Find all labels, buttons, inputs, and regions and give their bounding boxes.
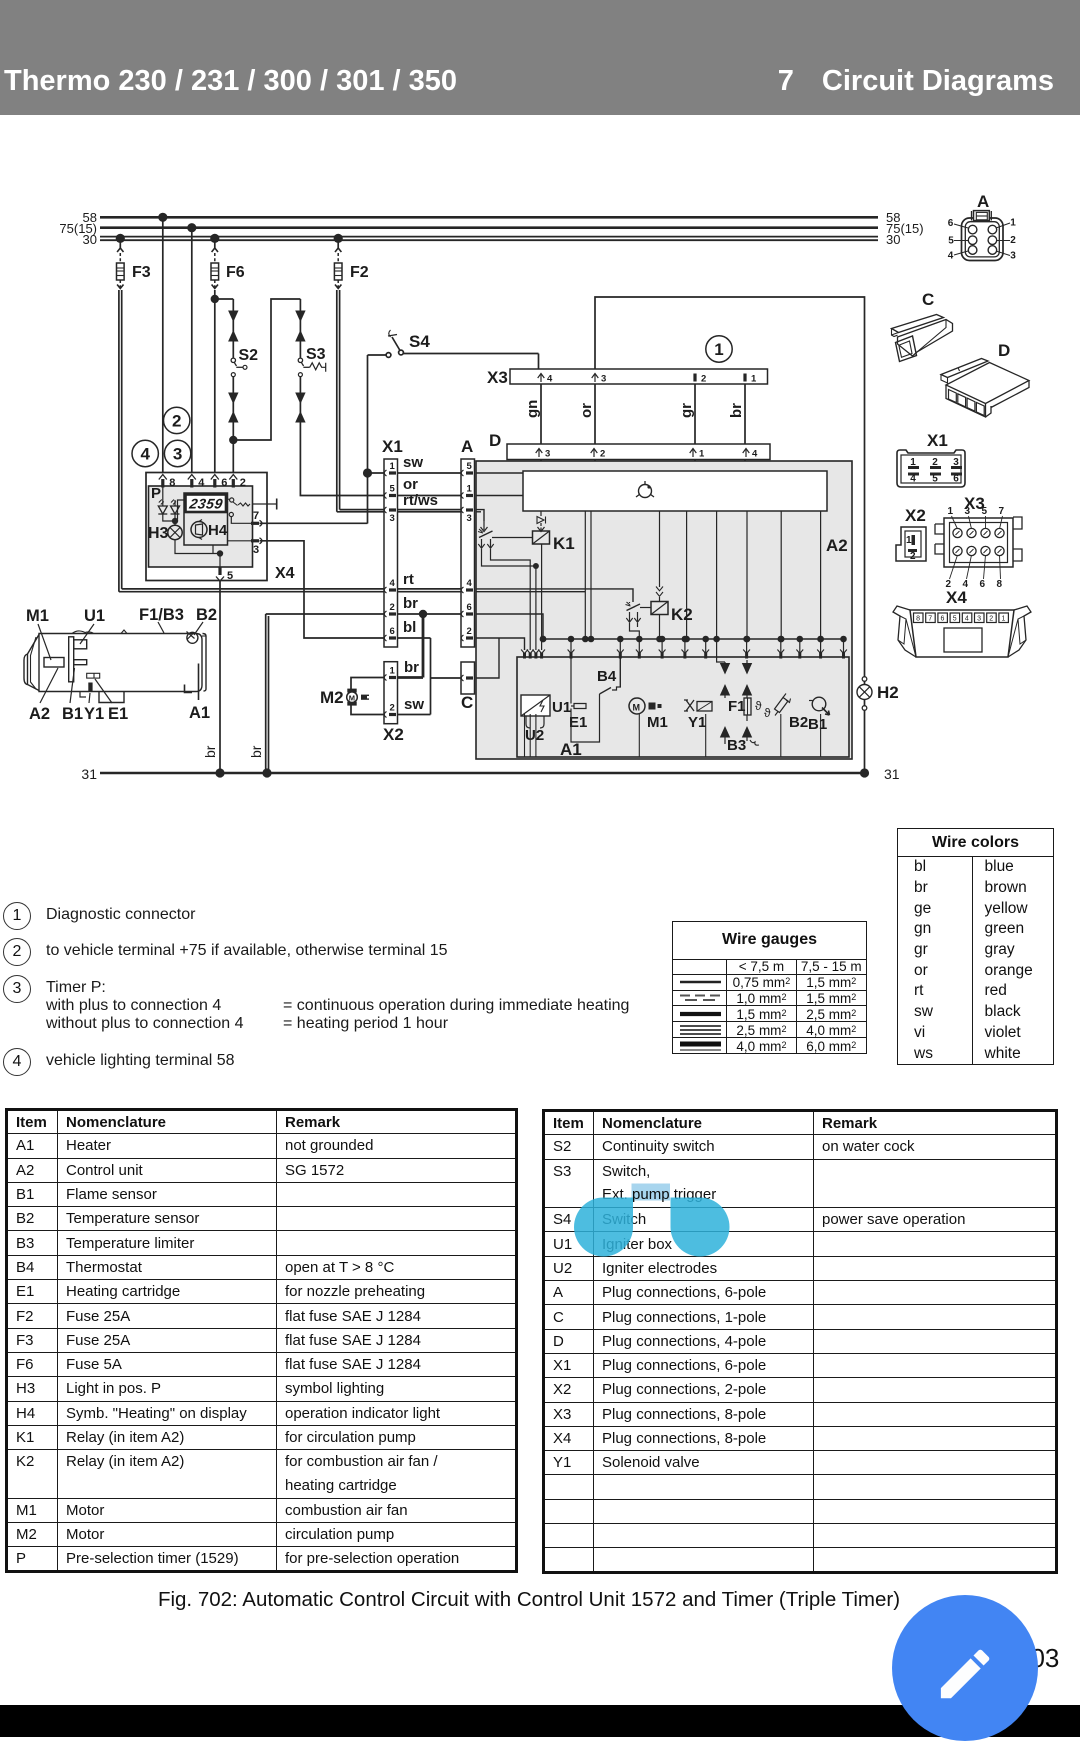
svg-text:K2: K2 <box>671 605 693 624</box>
svg-text:1: 1 <box>390 666 396 677</box>
svg-text:sw: sw <box>403 454 423 471</box>
svg-text:6: 6 <box>953 474 959 485</box>
svg-text:1: 1 <box>467 484 473 495</box>
svg-text:30: 30 <box>886 232 900 247</box>
svg-text:8: 8 <box>997 579 1003 590</box>
svg-text:7: 7 <box>253 510 259 522</box>
svg-text:6: 6 <box>980 579 986 590</box>
svg-text:E1: E1 <box>108 705 128 723</box>
svg-text:6: 6 <box>941 616 945 623</box>
svg-text:6: 6 <box>390 626 395 637</box>
svg-text:X3: X3 <box>487 368 508 387</box>
svg-text:S4: S4 <box>409 332 430 351</box>
svg-text:A2: A2 <box>29 705 50 723</box>
svg-text:U2: U2 <box>525 727 544 744</box>
svg-text:B1: B1 <box>62 705 83 723</box>
svg-text:X4: X4 <box>946 588 967 607</box>
svg-text:br: br <box>403 595 418 612</box>
svg-text:H3: H3 <box>148 525 169 542</box>
svg-text:br: br <box>248 745 264 758</box>
svg-text:Y1: Y1 <box>84 705 104 723</box>
svg-text:6: 6 <box>948 218 954 229</box>
svg-text:4: 4 <box>140 445 150 464</box>
svg-text:C: C <box>461 693 473 712</box>
svg-text:4: 4 <box>752 449 758 460</box>
svg-text:B4: B4 <box>597 668 617 685</box>
svg-text:D: D <box>998 341 1010 360</box>
svg-text:F1: F1 <box>728 698 746 715</box>
svg-text:1: 1 <box>1002 616 1006 623</box>
svg-text:5: 5 <box>953 616 957 623</box>
svg-text:rt: rt <box>403 571 414 588</box>
svg-text:ϑ: ϑ <box>755 699 762 713</box>
svg-text:B2: B2 <box>196 606 217 624</box>
svg-text:rt/ws: rt/ws <box>403 492 438 509</box>
svg-text:1: 1 <box>948 506 954 517</box>
svg-text:X2: X2 <box>905 506 926 525</box>
svg-text:sw: sw <box>404 696 424 713</box>
svg-text:31: 31 <box>81 766 97 782</box>
svg-text:1: 1 <box>699 449 705 460</box>
svg-text:X1: X1 <box>927 431 948 450</box>
svg-text:6: 6 <box>221 477 227 489</box>
svg-text:F6: F6 <box>226 264 245 281</box>
svg-text:4: 4 <box>198 477 205 489</box>
svg-text:4: 4 <box>965 616 969 623</box>
svg-text:H4: H4 <box>208 522 228 539</box>
svg-text:2359: 2359 <box>187 496 224 512</box>
svg-text:E1: E1 <box>569 714 587 731</box>
svg-text:A: A <box>461 437 473 456</box>
svg-text:F1/B3: F1/B3 <box>139 606 184 624</box>
svg-text:5: 5 <box>932 474 938 485</box>
svg-text:2: 2 <box>1010 235 1016 246</box>
svg-text:31: 31 <box>884 766 900 782</box>
svg-text:2: 2 <box>701 374 706 385</box>
svg-text:1: 1 <box>906 535 912 546</box>
svg-text:M1: M1 <box>647 714 668 731</box>
svg-text:5: 5 <box>982 506 988 517</box>
svg-text:B3: B3 <box>727 737 746 754</box>
svg-text:S2: S2 <box>239 347 259 364</box>
svg-text:6: 6 <box>467 602 472 613</box>
svg-text:2: 2 <box>989 616 993 623</box>
svg-text:A: A <box>977 192 989 211</box>
svg-text:B2: B2 <box>789 714 808 731</box>
svg-text:2: 2 <box>390 602 395 613</box>
svg-text:H2: H2 <box>877 683 899 702</box>
svg-text:4: 4 <box>390 578 396 589</box>
svg-text:br: br <box>404 659 419 676</box>
svg-text:M2: M2 <box>320 688 344 707</box>
svg-text:br: br <box>728 403 745 418</box>
svg-text:3: 3 <box>467 513 472 524</box>
svg-text:5: 5 <box>467 461 473 472</box>
svg-text:3: 3 <box>253 544 259 556</box>
svg-text:F2: F2 <box>350 264 369 281</box>
svg-text:B1: B1 <box>808 716 827 733</box>
svg-text:X1: X1 <box>382 437 403 456</box>
svg-text:3: 3 <box>601 374 606 385</box>
svg-text:8: 8 <box>916 616 920 623</box>
svg-text:7: 7 <box>928 616 932 623</box>
svg-text:ϑ: ϑ <box>764 706 771 720</box>
svg-text:X4: X4 <box>275 565 295 582</box>
svg-text:F3: F3 <box>132 264 151 281</box>
svg-text:4: 4 <box>910 474 916 485</box>
svg-text:3: 3 <box>977 616 981 623</box>
svg-text:2: 2 <box>467 626 472 637</box>
svg-text:2: 2 <box>172 411 181 430</box>
svg-text:gr: gr <box>678 403 695 418</box>
svg-text:4: 4 <box>467 578 473 589</box>
svg-text:X2: X2 <box>383 725 404 744</box>
svg-text:3: 3 <box>1010 251 1016 262</box>
svg-text:2: 2 <box>240 477 246 489</box>
svg-text:C: C <box>922 290 934 309</box>
svg-text:2: 2 <box>390 703 395 714</box>
svg-text:5: 5 <box>948 236 954 247</box>
svg-text:4: 4 <box>948 251 954 262</box>
svg-text:3: 3 <box>173 445 182 464</box>
svg-text:1: 1 <box>751 374 757 385</box>
svg-text:2: 2 <box>910 551 916 562</box>
svg-text:M: M <box>349 694 355 703</box>
svg-text:A1: A1 <box>560 740 582 759</box>
svg-text:M1: M1 <box>26 607 49 625</box>
svg-text:8: 8 <box>169 477 175 489</box>
svg-text:A1: A1 <box>189 704 210 722</box>
svg-text:3: 3 <box>545 449 550 460</box>
svg-text:K1: K1 <box>553 534 575 553</box>
svg-text:A2: A2 <box>826 536 848 555</box>
svg-text:P: P <box>151 485 161 502</box>
svg-text:1: 1 <box>1010 218 1016 229</box>
svg-text:Y1: Y1 <box>688 714 706 731</box>
svg-text:5: 5 <box>227 570 233 582</box>
svg-text:or: or <box>403 476 418 493</box>
svg-text:D: D <box>489 431 501 450</box>
svg-text:M: M <box>633 703 641 713</box>
svg-text:3: 3 <box>965 506 971 517</box>
svg-text:2: 2 <box>600 449 605 460</box>
svg-text:7: 7 <box>999 506 1005 517</box>
svg-text:1: 1 <box>714 340 723 359</box>
svg-text:U1: U1 <box>84 607 105 625</box>
svg-text:30: 30 <box>83 232 97 247</box>
svg-text:bl: bl <box>403 619 416 636</box>
svg-text:4: 4 <box>547 374 553 385</box>
svg-text:or: or <box>578 403 595 418</box>
svg-text:br: br <box>202 745 218 758</box>
svg-text:gn: gn <box>524 400 541 418</box>
svg-text:5: 5 <box>390 484 396 495</box>
svg-text:3: 3 <box>390 513 395 524</box>
svg-text:1: 1 <box>390 461 396 472</box>
svg-text:S3: S3 <box>306 346 326 363</box>
